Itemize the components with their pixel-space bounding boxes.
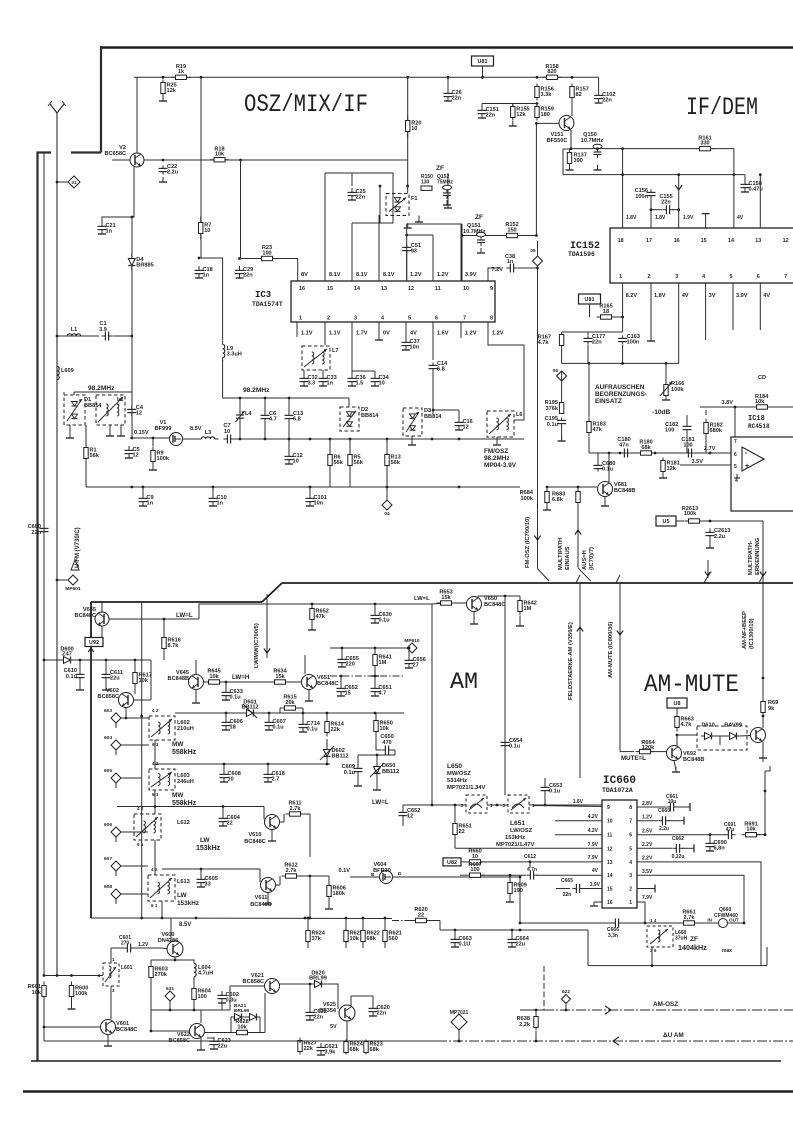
junction — [309, 917, 312, 920]
svg-text:4.7k: 4.7k — [538, 340, 550, 346]
resistor R19 — [176, 75, 187, 79]
resistor R181 — [661, 461, 665, 472]
svg-text:27: 27 — [413, 663, 419, 669]
sheet bottom border — [31, 1060, 781, 1062]
svg-text:8: 8 — [490, 316, 493, 322]
svg-text:1: 1 — [629, 900, 632, 906]
junction — [43, 974, 46, 977]
junction — [302, 712, 305, 715]
resistor R184 — [757, 405, 768, 409]
transistor V610 — [265, 815, 280, 830]
resistor R650 — [374, 721, 378, 732]
wire y398 oscillator — [223, 397, 310, 399]
junction — [309, 983, 312, 986]
svg-text:10: 10 — [293, 459, 299, 465]
svg-text:18: 18 — [603, 309, 609, 315]
svg-text:0.1u: 0.1u — [549, 789, 561, 795]
svg-text:max: max — [722, 948, 732, 954]
capacitor C630 — [374, 611, 376, 615]
test point — [165, 991, 175, 1001]
svg-text:OSZ/MIX/IF: OSZ/MIX/IF — [244, 90, 368, 119]
svg-text:93: 93 — [411, 249, 417, 255]
junction — [304, 917, 307, 920]
svg-text:82: 82 — [576, 92, 582, 98]
svg-text:7: 7 — [463, 316, 466, 322]
junction — [677, 173, 680, 176]
svg-text:18: 18 — [618, 238, 624, 244]
svg-text:0.47u: 0.47u — [749, 187, 764, 193]
junction — [311, 603, 314, 606]
svg-text:L650: L650 — [447, 763, 462, 770]
inductor L609 — [57, 366, 59, 379]
svg-text:1: 1 — [299, 316, 302, 322]
svg-text:12k: 12k — [516, 112, 526, 118]
capacitor C180 — [620, 452, 624, 454]
junction — [162, 76, 165, 79]
ground — [308, 696, 310, 701]
capacitor C156 — [650, 189, 652, 192]
junction — [759, 173, 762, 176]
junction — [56, 181, 59, 184]
junction — [43, 1026, 46, 1029]
svg-text:6 1: 6 1 — [137, 842, 144, 847]
junction — [349, 438, 352, 441]
svg-text:2: 2 — [327, 316, 330, 322]
svg-text:MP601: MP601 — [65, 586, 81, 592]
svg-text:10n: 10n — [410, 345, 420, 351]
svg-text:22n: 22n — [377, 1011, 387, 1017]
junction — [676, 734, 679, 737]
junction — [79, 659, 82, 662]
junction — [406, 185, 409, 188]
inductor L660 ZF can — [647, 926, 673, 947]
junction — [588, 362, 591, 365]
wire V622 emitter — [200, 1038, 202, 1048]
svg-text:F1: F1 — [411, 196, 418, 202]
junction — [621, 147, 624, 150]
svg-text:3V: 3V — [709, 293, 716, 299]
capacitor C26 — [447, 89, 449, 93]
svg-text:18: 18 — [230, 725, 236, 731]
capacitor C612 — [526, 874, 530, 876]
wire y363 — [562, 362, 679, 364]
svg-text:180: 180 — [541, 112, 550, 118]
wire V151 base line — [535, 123, 537, 235]
svg-text:3.9V: 3.9V — [465, 272, 477, 278]
svg-text:1.2V: 1.2V — [642, 815, 653, 821]
wire y103 — [482, 103, 537, 105]
svg-text:2.8V: 2.8V — [642, 801, 653, 807]
capacitor C18 — [198, 266, 200, 270]
wire AM-NF line — [762, 583, 764, 728]
svg-text:C660: C660 — [658, 808, 670, 814]
capacitor C4 — [131, 405, 133, 409]
resistor R23 — [262, 256, 273, 260]
junction — [565, 1009, 568, 1012]
svg-text:17: 17 — [646, 238, 652, 244]
svg-text:605: 605 — [104, 768, 112, 774]
junction — [650, 208, 653, 211]
resistor R661 — [684, 921, 695, 925]
svg-text:CD: CD — [758, 375, 766, 381]
wire base V681 — [547, 486, 597, 488]
junction — [264, 397, 267, 400]
junction — [198, 257, 201, 260]
junction — [142, 486, 145, 489]
svg-text:1M: 1M — [524, 606, 532, 612]
ground — [376, 785, 378, 790]
svg-text:68k: 68k — [350, 1047, 360, 1053]
svg-text:6 1: 6 1 — [151, 903, 158, 908]
svg-text:L4: L4 — [245, 411, 252, 417]
resistor R157 — [570, 87, 574, 98]
svg-text:BB112: BB112 — [332, 754, 349, 760]
svg-text:11: 11 — [607, 833, 613, 839]
svg-text:LW=L: LW=L — [372, 799, 389, 806]
resistor R623 — [364, 1042, 368, 1053]
svg-text:BC848B: BC848B — [683, 757, 704, 763]
svg-text:15: 15 — [701, 238, 707, 244]
svg-text:2.7: 2.7 — [272, 777, 280, 783]
test point — [111, 773, 121, 783]
junction — [519, 876, 522, 879]
svg-text:BFR30: BFR30 — [373, 868, 391, 874]
resistor R684 — [545, 492, 549, 503]
junction — [161, 917, 164, 920]
capacitor C25 — [351, 188, 353, 192]
svg-text:L651: L651 — [510, 820, 525, 827]
svg-text:3 6: 3 6 — [650, 948, 657, 953]
svg-text:D: D — [398, 871, 402, 877]
junction — [734, 406, 737, 409]
svg-text:3.9: 3.9 — [99, 327, 107, 333]
trimmer R166 — [665, 363, 667, 384]
svg-text:ZF: ZF — [690, 936, 698, 943]
junction — [406, 76, 409, 79]
wire pin1 — [637, 902, 645, 923]
svg-text:4.2V: 4.2V — [588, 814, 599, 820]
svg-text:AM-MUTE (IC800/36): AM-MUTE (IC800/36) — [608, 622, 614, 678]
svg-text:(IC1300/10): (IC1300/10) — [749, 618, 755, 649]
test point — [68, 575, 78, 585]
svg-text:22n: 22n — [592, 340, 602, 346]
junction — [307, 917, 310, 920]
svg-text:20k: 20k — [285, 700, 295, 706]
svg-text:U81: U81 — [478, 59, 488, 65]
svg-text:ΔU AM: ΔU AM — [663, 1032, 684, 1039]
wire right rail down — [764, 771, 766, 835]
wire can bottom — [651, 947, 653, 966]
svg-text:3: 3 — [460, 803, 463, 809]
svg-text:22u: 22u — [218, 1044, 228, 1050]
connector U82 — [443, 858, 461, 866]
capacitor C33 — [322, 374, 324, 378]
svg-text:10: 10 — [607, 819, 613, 825]
svg-text:1.2V: 1.2V — [410, 272, 422, 278]
svg-text:75MHz: 75MHz — [437, 180, 453, 186]
svg-text:4: 4 — [97, 973, 100, 978]
capacitor C601 — [123, 947, 127, 949]
arrow into pin16 — [675, 185, 682, 190]
svg-text:10k: 10k — [755, 399, 765, 405]
svg-text:4: 4 — [381, 316, 384, 322]
junction — [544, 804, 547, 807]
wire y923 ZF row — [520, 922, 612, 924]
svg-text:10k: 10k — [215, 152, 225, 158]
svg-text:1k: 1k — [178, 69, 185, 75]
svg-text:U8: U8 — [674, 701, 681, 707]
transistor V604 fet — [380, 871, 393, 884]
capacitor C12 — [288, 452, 290, 456]
junction — [200, 76, 203, 79]
svg-text:558kHz: 558kHz — [172, 749, 197, 756]
svg-text:D610: D610 — [701, 723, 714, 729]
capacitor C655 — [341, 655, 343, 659]
svg-text:BRL99: BRL99 — [234, 1008, 250, 1014]
resistor R159 — [535, 107, 539, 118]
junction — [535, 1040, 538, 1043]
svg-text:AM-OSZ: AM-OSZ — [653, 1001, 678, 1008]
svg-text:8.1V: 8.1V — [329, 272, 341, 278]
svg-text:8V: 8V — [301, 272, 308, 278]
junction — [546, 486, 549, 489]
svg-text:4 2: 4 2 — [151, 867, 158, 872]
resistor R634 — [275, 680, 286, 684]
svg-text:9k: 9k — [768, 706, 775, 712]
inductor L6 can — [487, 411, 514, 437]
wire pin2 stub — [637, 888, 655, 890]
svg-text:100: 100 — [470, 867, 479, 873]
svg-text:12: 12 — [133, 453, 139, 459]
op-amp U1 IC3 TDA1574T — [291, 281, 495, 322]
svg-text:LW: LW — [200, 837, 211, 844]
svg-text:608: 608 — [104, 884, 112, 890]
svg-text:0.1u: 0.1u — [307, 727, 319, 733]
svg-text:AUFRAUSCHEN: AUFRAUSCHEN — [595, 384, 645, 391]
wire pin4 loop — [637, 862, 761, 966]
junction — [519, 922, 522, 925]
capacitor C101 — [309, 494, 311, 498]
junction — [458, 438, 461, 441]
svg-text:BC858C: BC858C — [98, 694, 119, 700]
svg-text:10n: 10n — [314, 501, 324, 507]
resistor R603 — [149, 967, 153, 978]
resistor R167 — [559, 335, 563, 346]
transistor V651 — [302, 675, 317, 690]
resistor R645 — [209, 680, 220, 684]
sheet border jog — [71, 151, 101, 153]
svg-text:1n: 1n — [217, 501, 224, 507]
svg-text:BC848B: BC848B — [168, 676, 189, 682]
svg-text:100k: 100k — [157, 456, 170, 462]
svg-text:10.7MHz: 10.7MHz — [581, 138, 604, 144]
pin15 stub — [705, 214, 707, 228]
svg-text:16: 16 — [299, 286, 305, 292]
svg-text:1n: 1n — [203, 273, 210, 279]
junction — [163, 618, 166, 621]
resistor R7 — [199, 223, 203, 234]
svg-text:270k: 270k — [155, 972, 168, 978]
inductor L7 can — [302, 346, 330, 370]
resonator Q150 — [593, 144, 602, 148]
diode BAV99 — [726, 735, 730, 737]
svg-text:6.8: 6.8 — [293, 417, 301, 423]
svg-text:C665: C665 — [561, 878, 573, 884]
svg-text:2.7k: 2.7k — [290, 806, 302, 812]
ground — [162, 177, 164, 182]
svg-text:MP7021: MP7021 — [450, 1010, 469, 1016]
svg-text:2,2u: 2,2u — [659, 826, 669, 832]
resistor R683 — [576, 492, 580, 503]
resistor R137 — [567, 153, 571, 164]
junction — [677, 208, 680, 211]
junction — [225, 712, 228, 715]
svg-text:LW=L: LW=L — [176, 612, 193, 619]
junction — [454, 804, 457, 807]
ground — [561, 436, 563, 441]
junction — [140, 715, 143, 718]
svg-text:8.5V: 8.5V — [190, 426, 202, 432]
wire y920 dashdot — [392, 920, 414, 922]
wire pin18 drop — [622, 149, 624, 228]
svg-text:1.2V: 1.2V — [465, 331, 477, 337]
svg-text:22: 22 — [227, 821, 233, 827]
resistor R2613 — [689, 519, 700, 523]
wire R614 top — [326, 739, 328, 747]
svg-text:2,2k: 2,2k — [519, 1022, 531, 1028]
svg-text:10k: 10k — [209, 674, 219, 680]
connector U92 — [85, 638, 103, 647]
ground — [407, 223, 409, 228]
resistor R621 — [383, 931, 387, 942]
wire V600 emitter — [174, 957, 176, 960]
resistor R617 — [133, 673, 137, 684]
svg-text:3.5V: 3.5V — [691, 459, 703, 465]
svg-text:270: 270 — [121, 941, 130, 947]
svg-text:16: 16 — [607, 900, 613, 906]
op-amp IC18 box — [731, 437, 793, 511]
capacitor C14 — [432, 362, 434, 365]
svg-text:4V: 4V — [410, 331, 417, 337]
junction — [709, 452, 712, 455]
wire pin8 loop — [488, 322, 524, 420]
svg-text:U92: U92 — [89, 640, 99, 646]
resistor R624 — [344, 1042, 348, 1053]
svg-text:LW: LW — [177, 892, 188, 899]
page rule — [23, 1090, 793, 1092]
ground — [200, 1045, 202, 1050]
wire V650 emitter gnd — [473, 612, 475, 623]
capacitor C623 — [213, 1037, 215, 1041]
svg-text:L3: L3 — [205, 430, 212, 436]
test point — [382, 500, 392, 510]
inductor L9 — [223, 344, 225, 357]
svg-text:RC4518: RC4518 — [748, 423, 770, 430]
wire C29 branch — [240, 160, 242, 259]
transistor V602 — [119, 693, 134, 708]
ground — [447, 203, 449, 208]
svg-text:1.2V: 1.2V — [492, 331, 504, 337]
junction — [238, 257, 241, 260]
capacitor C5 — [128, 446, 130, 450]
junction — [386, 486, 389, 489]
svg-text:9: 9 — [607, 805, 610, 811]
svg-text:10k: 10k — [746, 827, 756, 833]
junction — [154, 805, 157, 808]
wire to L9 — [199, 258, 223, 340]
svg-text:558kHz: 558kHz — [172, 800, 197, 807]
svg-text:100: 100 — [198, 994, 207, 1000]
resistor R615 — [285, 706, 296, 710]
op-amp U3 IC660 TDA1072A — [602, 800, 637, 908]
junction — [644, 922, 647, 925]
svg-text:100: 100 — [683, 443, 692, 449]
svg-text:BEGRENZUNGS-: BEGRENZUNGS- — [595, 391, 647, 398]
resistor R165 — [601, 315, 612, 319]
junction — [529, 861, 532, 864]
capacitor C680 — [597, 462, 599, 465]
junction — [535, 1009, 538, 1012]
resistor R612 — [286, 874, 297, 878]
svg-text:3.3: 3.3 — [308, 381, 316, 387]
svg-text:14: 14 — [607, 873, 613, 879]
svg-text:603: 603 — [104, 708, 112, 714]
wire dash to R634 — [220, 681, 275, 683]
junction — [225, 681, 228, 684]
wire V650 down — [504, 596, 506, 795]
svg-text:BC658C: BC658C — [105, 151, 126, 157]
junction — [458, 486, 461, 489]
wire y764 — [155, 763, 330, 765]
capacitor C158 — [744, 180, 746, 184]
svg-text:560: 560 — [389, 936, 398, 942]
test point — [407, 643, 417, 653]
pin bottom wires IC3 — [296, 322, 298, 337]
junction — [140, 917, 143, 920]
wire y160 — [144, 159, 408, 161]
svg-text:5: 5 — [730, 274, 733, 280]
svg-text:3.5V: 3.5V — [642, 869, 653, 875]
capacitor C182 — [686, 422, 688, 426]
junction — [309, 438, 312, 441]
resistor R20 — [406, 121, 410, 132]
resistor R652 — [310, 609, 314, 620]
wire pin16-17 C155 — [651, 209, 662, 211]
junction — [239, 159, 242, 162]
svg-text:7: 7 — [784, 274, 787, 280]
resistor R601 — [42, 986, 46, 997]
svg-text:4: 4 — [702, 274, 705, 280]
wire D4 branch — [131, 217, 133, 438]
svg-text:16: 16 — [674, 238, 680, 244]
resistor R183 — [587, 422, 591, 433]
capacitor C656 — [408, 656, 410, 660]
diode D610 — [701, 735, 705, 737]
svg-text:3.3k: 3.3k — [541, 92, 553, 98]
capacitor C600 — [43, 524, 45, 528]
wire emitter V151 — [570, 130, 572, 149]
wire y1010 — [151, 1009, 230, 1011]
wire V602 emitter — [125, 708, 127, 719]
svg-text:IC660: IC660 — [603, 775, 636, 787]
svg-text:BF999: BF999 — [155, 426, 172, 432]
svg-text:22n: 22n — [602, 98, 612, 104]
svg-text:12: 12 — [463, 425, 469, 431]
capacitor C690 — [709, 839, 711, 843]
junction — [169, 1009, 172, 1012]
junction — [131, 216, 134, 219]
resistor R622 — [361, 931, 365, 942]
